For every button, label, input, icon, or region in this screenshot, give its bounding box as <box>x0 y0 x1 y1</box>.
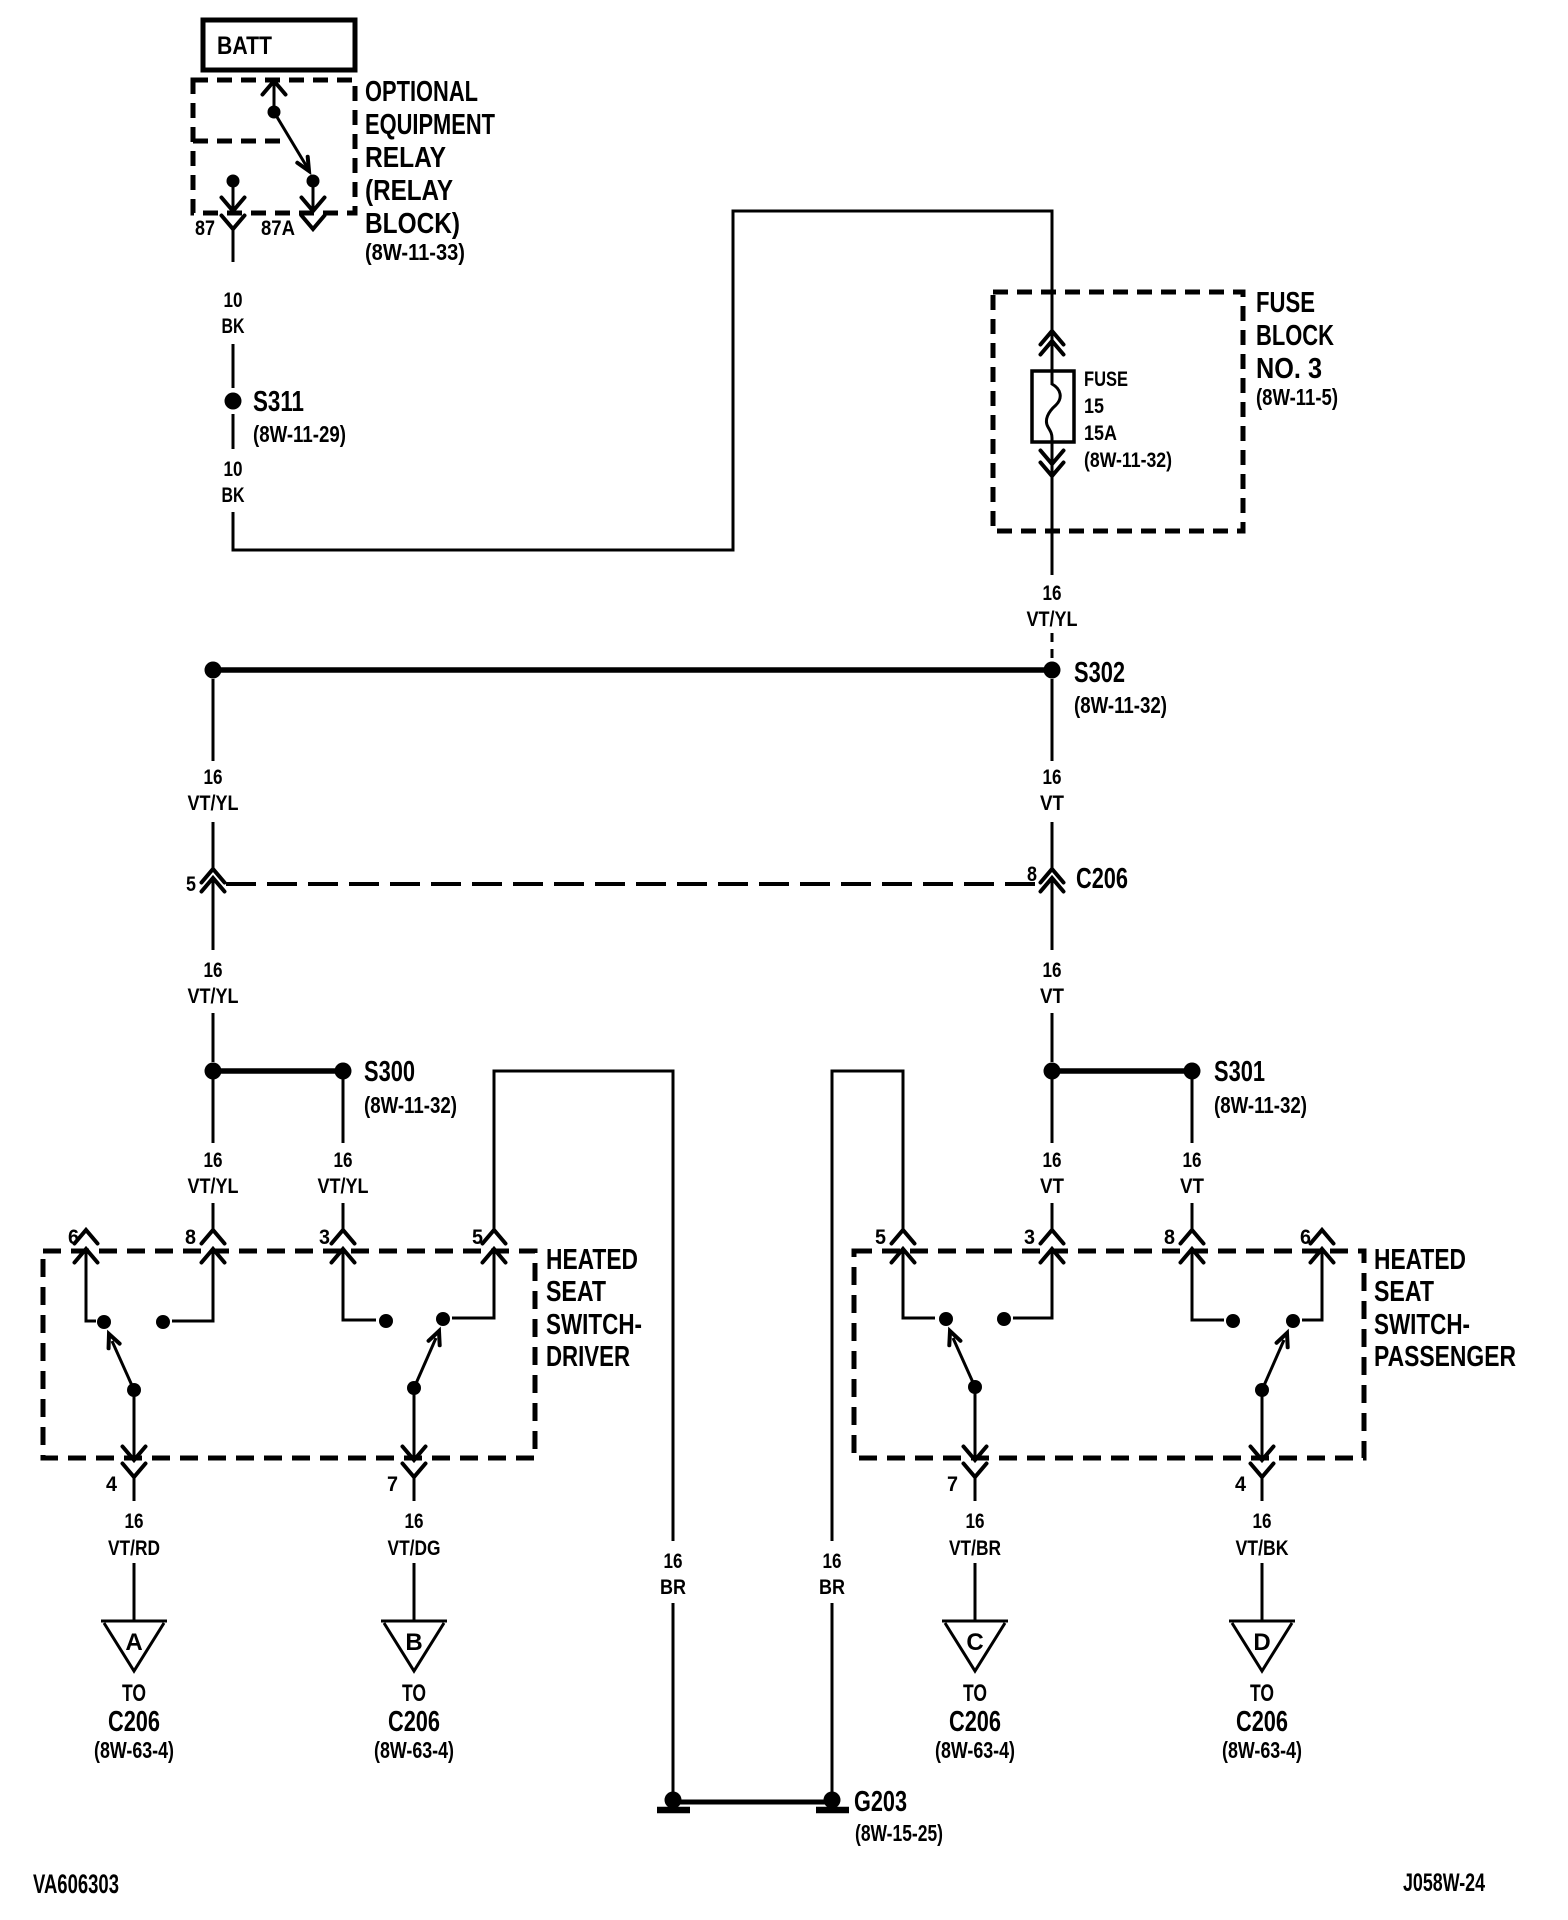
svg-text:SWITCH-: SWITCH- <box>546 1309 642 1341</box>
wire into C206 pin 5 <box>212 822 215 868</box>
off-page connector D <box>1229 1621 1295 1671</box>
svg-text:15A: 15A <box>1084 422 1117 445</box>
svg-text:(8W-11-32): (8W-11-32) <box>1074 692 1167 718</box>
svg-text:PASSENGER: PASSENGER <box>1374 1341 1516 1373</box>
svg-text:7: 7 <box>947 1473 958 1496</box>
relay common terminal arrow to BATT <box>263 81 286 119</box>
svg-text:BK: BK <box>222 484 245 507</box>
svg-text:6: 6 <box>68 1226 79 1249</box>
svg-text:VT/YL: VT/YL <box>318 1175 369 1198</box>
svg-text:(8W-11-32): (8W-11-32) <box>1214 1092 1307 1118</box>
svg-text:16: 16 <box>204 1149 223 1172</box>
pin label 87A <box>261 217 295 240</box>
wire label 16 VT (passenger pin 8) <box>1180 1149 1204 1198</box>
wire label 16 VT/BK <box>1236 1510 1289 1560</box>
svg-text:TO: TO <box>963 1680 987 1707</box>
wire 10 BK from relay pin 87 down (upper segment) <box>232 229 235 262</box>
svg-text:3: 3 <box>319 1226 330 1249</box>
svg-text:16: 16 <box>1043 582 1062 605</box>
svg-text:S301: S301 <box>1214 1056 1265 1088</box>
passenger pin 4 connector <box>1235 1464 1274 1502</box>
svg-text:BATT: BATT <box>217 32 272 60</box>
battery feed terminal box BATT <box>203 20 355 70</box>
wire label 16 VT (right, above C206) <box>1040 766 1064 815</box>
off-page connector B <box>381 1621 447 1671</box>
wire S302 left branch down <box>212 679 215 761</box>
wire S302 right branch down <box>1051 679 1054 761</box>
driver pin 7 connector <box>387 1464 426 1502</box>
label C206 <box>1076 863 1128 895</box>
svg-text:C206: C206 <box>108 1706 160 1738</box>
svg-text:C206: C206 <box>1236 1706 1288 1738</box>
svg-text:10: 10 <box>224 289 243 312</box>
splice S301 <box>1044 1063 1201 1080</box>
relay wiper arm <box>274 112 314 174</box>
svg-text:6: 6 <box>1300 1226 1311 1249</box>
svg-text:VT/BK: VT/BK <box>1236 1537 1289 1560</box>
svg-text:J058W-24: J058W-24 <box>1403 1869 1485 1897</box>
svg-text:(8W-11-32): (8W-11-32) <box>1084 449 1172 472</box>
connector C206 pin 5 (chevrons) <box>202 869 225 892</box>
svg-text:3: 3 <box>1024 1226 1035 1249</box>
driver pin 8 connector <box>185 1226 225 1263</box>
svg-text:FUSE: FUSE <box>1256 287 1315 319</box>
splice S300 <box>205 1063 352 1080</box>
svg-text:BR: BR <box>660 1576 686 1599</box>
svg-text:8: 8 <box>1164 1226 1175 1249</box>
svg-text:16: 16 <box>966 1510 985 1533</box>
svg-text:16: 16 <box>823 1550 842 1573</box>
svg-text:VT: VT <box>1040 985 1064 1008</box>
svg-text:16: 16 <box>204 766 223 789</box>
svg-text:SEAT: SEAT <box>1374 1276 1434 1308</box>
passenger pin 5 internal wire to contact <box>903 1249 953 1326</box>
driver pin 6 internal wire to contact <box>86 1249 111 1329</box>
svg-text:4: 4 <box>106 1473 117 1496</box>
svg-text:(8W-11-5): (8W-11-5) <box>1256 384 1338 410</box>
svg-text:VT: VT <box>1180 1175 1204 1198</box>
wire from fuse to bottom of fuse block <box>1051 442 1054 575</box>
svg-text:(8W-63-4): (8W-63-4) <box>94 1737 174 1763</box>
wire label 16 VT/YL (left, above C206) <box>188 766 239 815</box>
wire into passenger pin 3 <box>1051 1203 1054 1230</box>
svg-text:BR: BR <box>819 1576 845 1599</box>
svg-text:16: 16 <box>334 1149 353 1172</box>
svg-text:C: C <box>966 1629 983 1656</box>
svg-text:(8W-15-25): (8W-15-25) <box>855 1820 943 1846</box>
svg-text:SEAT: SEAT <box>546 1276 606 1308</box>
label TO C206 (8W-63-4) under C <box>935 1680 1015 1763</box>
wire driver pin 5 to ground drop (over the top) <box>494 1071 673 1541</box>
fuse cavity connector (lower, double chevron) <box>1041 451 1064 477</box>
label S301 (8W-11-32) <box>1214 1056 1307 1118</box>
wire label 16 VT/DG <box>388 1510 441 1560</box>
wire C206 pin8 to S301 (upper) <box>1051 878 1054 950</box>
passenger pin 8 connector <box>1164 1226 1204 1263</box>
svg-text:16: 16 <box>1043 766 1062 789</box>
svg-text:(8W-63-4): (8W-63-4) <box>1222 1737 1302 1763</box>
svg-text:4: 4 <box>1235 1473 1246 1496</box>
relay contact 87A <box>302 175 325 230</box>
label HEATED SEAT SWITCH-DRIVER <box>546 1244 642 1373</box>
svg-text:VT/BR: VT/BR <box>949 1537 1001 1560</box>
wire segment below S311 <box>232 414 235 449</box>
svg-text:5: 5 <box>472 1226 483 1249</box>
splice S302 bus line <box>205 662 1061 679</box>
wire label 10 BK (upper) <box>222 289 245 338</box>
svg-text:TO: TO <box>1250 1680 1274 1707</box>
wire label 16 VT/BR <box>949 1510 1001 1560</box>
passenger switch 1 wiper (to pin 7) <box>944 1329 986 1460</box>
svg-text:(8W-11-29): (8W-11-29) <box>253 421 346 447</box>
wire C206 pin5 to S300 (upper) <box>212 878 215 950</box>
svg-text:HEATED: HEATED <box>546 1244 638 1276</box>
svg-text:8: 8 <box>185 1226 196 1249</box>
wire label 10 BK (lower) <box>222 458 245 507</box>
svg-text:VT/YL: VT/YL <box>1027 608 1078 631</box>
svg-text:NO. 3: NO. 3 <box>1256 353 1322 385</box>
svg-text:10: 10 <box>224 458 243 481</box>
wire label 16 VT/YL (below fuse block) <box>1027 582 1078 631</box>
wire into driver pin 3 <box>342 1203 345 1230</box>
connector C206 pin 8 (chevrons) <box>1041 869 1064 892</box>
wire label 16 BR (left) <box>660 1550 686 1599</box>
pin label 87 <box>195 217 215 240</box>
svg-text:(8W-11-33): (8W-11-33) <box>365 239 465 265</box>
svg-text:16: 16 <box>1183 1149 1202 1172</box>
svg-text:C206: C206 <box>949 1706 1001 1738</box>
fuse block no. 3 dashed box <box>993 292 1243 531</box>
driver pin 6 connector <box>68 1226 98 1263</box>
driver pin 8 internal wire to contact <box>156 1249 213 1329</box>
svg-text:S311: S311 <box>253 386 304 418</box>
passenger pin 5 connector <box>875 1226 915 1263</box>
off-page connector A <box>101 1621 167 1671</box>
wire label 16 VT (above S301) <box>1040 959 1064 1008</box>
optional equipment relay box (relay block) <box>193 80 355 213</box>
svg-text:VT: VT <box>1040 1175 1064 1198</box>
svg-text:VA606303: VA606303 <box>33 1869 119 1899</box>
label S300 (8W-11-32) <box>364 1056 457 1118</box>
svg-text:HEATED: HEATED <box>1374 1244 1466 1276</box>
wire into C206 pin 8 <box>1051 822 1054 868</box>
wire S300 right leg to driver pin 3 <box>342 1079 345 1143</box>
wire label 16 VT/YL (driver pin 3) <box>318 1149 369 1198</box>
svg-text:C206: C206 <box>388 1706 440 1738</box>
wire into S300 <box>212 1013 215 1062</box>
driver pin 3 connector <box>319 1226 355 1263</box>
svg-text:VT/YL: VT/YL <box>188 1175 239 1198</box>
wire S300 left leg to driver pin 8 <box>212 1079 215 1143</box>
wire label 16 VT/RD <box>108 1510 160 1560</box>
svg-text:15: 15 <box>1084 395 1104 418</box>
label TO C206 (8W-63-4) under B <box>374 1680 454 1763</box>
ground symbol left <box>657 1792 690 1811</box>
label S302 (8W-11-32) <box>1074 657 1167 718</box>
svg-text:16: 16 <box>125 1510 144 1533</box>
fuse 15 (15A) element <box>1032 371 1074 442</box>
passenger switch 2 wiper (to pin 4) <box>1251 1331 1293 1460</box>
label G203 (8W-15-25) <box>854 1786 943 1846</box>
passenger pin 6 internal wire to contact <box>1286 1249 1322 1328</box>
svg-text:VT/YL: VT/YL <box>188 792 239 815</box>
driver pin 3 internal wire to contact <box>343 1249 393 1328</box>
svg-text:TO: TO <box>122 1680 146 1707</box>
svg-text:16: 16 <box>1043 1149 1062 1172</box>
wire to off-page connector D <box>1261 1563 1264 1621</box>
svg-text:RELAY: RELAY <box>365 142 446 174</box>
svg-text:(8W-11-32): (8W-11-32) <box>364 1092 457 1118</box>
wire to off-page connector B <box>413 1563 416 1621</box>
svg-text:16: 16 <box>405 1510 424 1533</box>
label FUSE BLOCK NO. 3 (8W-11-5) <box>1256 287 1338 410</box>
svg-text:D: D <box>1253 1629 1270 1656</box>
svg-text:G203: G203 <box>854 1786 907 1818</box>
driver switch 2 wiper (to pin 7) <box>403 1329 445 1460</box>
svg-text:(RELAY: (RELAY <box>365 175 453 207</box>
driver switch 1 wiper (to pin 4) <box>103 1332 145 1460</box>
svg-text:VT/RD: VT/RD <box>108 1537 160 1560</box>
wire label 16 VT/YL (driver pin 8) <box>188 1149 239 1198</box>
off-page connector C <box>942 1621 1008 1671</box>
wire 16 BR left to ground <box>672 1603 675 1794</box>
passenger pin 6 connector <box>1300 1226 1334 1263</box>
svg-text:(8W-63-4): (8W-63-4) <box>935 1737 1015 1763</box>
svg-text:16: 16 <box>1043 959 1062 982</box>
wire S301 left leg to passenger pin 3 <box>1051 1079 1054 1143</box>
svg-text:16: 16 <box>664 1550 683 1573</box>
label HEATED SEAT SWITCH-PASSENGER <box>1374 1244 1516 1373</box>
wire 16 BR right to ground <box>831 1603 834 1794</box>
svg-text:8: 8 <box>1027 863 1037 886</box>
svg-text:S300: S300 <box>364 1056 415 1088</box>
fuse cavity connector (upper, double chevron) <box>1041 331 1064 355</box>
passenger pin 3 connector <box>1024 1226 1064 1263</box>
wire into fuse <box>1051 293 1054 371</box>
svg-text:5: 5 <box>186 873 196 896</box>
sheet code J058W-24 <box>1403 1869 1485 1897</box>
svg-text:(8W-63-4): (8W-63-4) <box>374 1737 454 1763</box>
wire into passenger pin 8 <box>1191 1203 1194 1230</box>
svg-text:VT: VT <box>1040 792 1064 815</box>
svg-text:16: 16 <box>204 959 223 982</box>
ground G203 bus <box>673 1800 832 1805</box>
svg-text:SWITCH-: SWITCH- <box>1374 1309 1470 1341</box>
svg-text:VT/DG: VT/DG <box>388 1537 441 1560</box>
svg-text:OPTIONAL: OPTIONAL <box>365 76 478 108</box>
label OPTIONAL EQUIPMENT RELAY (RELAY BLOCK) (8W-11-33) <box>365 76 495 265</box>
svg-text:BLOCK: BLOCK <box>1256 320 1334 352</box>
svg-text:BK: BK <box>222 315 245 338</box>
connector C206 dashed mating line <box>226 882 1040 886</box>
wire 10 BK routed right and up to fuse block <box>233 211 1052 550</box>
svg-text:DRIVER: DRIVER <box>546 1341 630 1373</box>
wire S301 right leg to passenger pin 8 <box>1191 1079 1194 1143</box>
wire label 16 VT/YL (above S300) <box>188 959 239 1008</box>
sheet number VA606303 <box>33 1869 119 1899</box>
wire into driver pin 8 <box>212 1203 215 1230</box>
wire to off-page connector C <box>974 1563 977 1621</box>
splice S311 <box>225 386 347 447</box>
svg-text:C206: C206 <box>1076 863 1128 895</box>
wire label 16 VT (passenger pin 3) <box>1040 1149 1064 1198</box>
dashed wire stub above S302 <box>1051 633 1054 658</box>
label TO C206 (8W-63-4) under D <box>1222 1680 1302 1763</box>
svg-text:7: 7 <box>387 1473 398 1496</box>
passenger pin 8 internal wire to contact <box>1192 1249 1240 1328</box>
fuse annotation FUSE 15 15A (8W-11-32) <box>1084 368 1172 472</box>
svg-text:VT/YL: VT/YL <box>188 985 239 1008</box>
relay contact 87 <box>222 175 245 230</box>
ground symbol right (G203) <box>816 1792 849 1811</box>
wire label 16 BR (right) <box>819 1550 845 1599</box>
svg-text:A: A <box>125 1629 142 1656</box>
passenger pin 7 connector <box>947 1464 987 1502</box>
pin label 8 <box>1027 863 1037 886</box>
svg-text:87: 87 <box>195 217 215 240</box>
label TO C206 (8W-63-4) under A <box>94 1680 174 1763</box>
svg-text:S302: S302 <box>1074 657 1125 689</box>
svg-text:5: 5 <box>875 1226 886 1249</box>
svg-text:B: B <box>405 1629 422 1656</box>
wire into S301 <box>1051 1013 1054 1062</box>
svg-text:FUSE: FUSE <box>1084 368 1128 391</box>
passenger pin 3 internal wire to contact <box>997 1249 1052 1326</box>
driver pin 5 internal wire to contact <box>436 1249 494 1326</box>
svg-text:TO: TO <box>402 1680 426 1707</box>
wire passenger pin 5 to ground drop (over the top) <box>832 1071 903 1541</box>
wire segment into splice S311 <box>232 344 235 388</box>
svg-text:87A: 87A <box>261 217 295 240</box>
heated seat switch driver dashed box <box>43 1251 535 1458</box>
driver pin 4 connector <box>106 1464 146 1502</box>
svg-text:EQUIPMENT: EQUIPMENT <box>365 109 495 141</box>
wire to off-page connector A <box>133 1563 136 1621</box>
driver pin 5 connector <box>472 1226 506 1263</box>
pin label 5 <box>186 873 196 896</box>
heated seat switch passenger dashed box <box>854 1251 1364 1458</box>
svg-text:16: 16 <box>1253 1510 1272 1533</box>
svg-text:BLOCK): BLOCK) <box>365 208 460 240</box>
